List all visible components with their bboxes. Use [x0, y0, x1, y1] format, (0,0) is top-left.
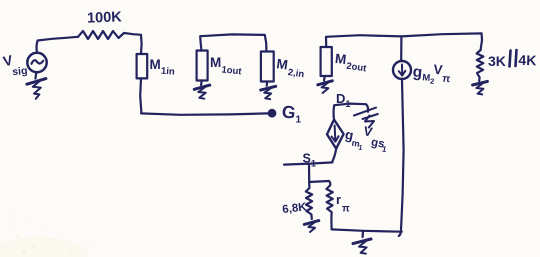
svg-text:sig: sig: [12, 65, 28, 79]
ground at bottom rail: [353, 231, 371, 254]
wire diamond bottom to S1 bar: [332, 149, 336, 162]
svg-text:2: 2: [430, 77, 435, 86]
svg-text:3K: 3K: [488, 53, 506, 69]
ground below 3K||4K: [473, 77, 488, 94]
label gm2 Vpi: [412, 60, 452, 87]
svg-text:π: π: [342, 204, 350, 215]
wire top rail joining M1out and M2in: [200, 34, 266, 51]
svg-text:M: M: [210, 55, 221, 70]
svg-text:M: M: [150, 57, 161, 72]
resistor 6.8K: [306, 188, 312, 219]
wire D1 stub: [334, 104, 369, 120]
wire M1in bottom to node G1: [140, 78, 267, 114]
resistor M2out: [321, 47, 332, 76]
ground below 6.8K: [304, 221, 319, 232]
svg-text:M: M: [334, 51, 347, 67]
ground below M1out: [194, 81, 210, 99]
svg-text:1: 1: [296, 115, 302, 126]
label 3K||4K: [488, 52, 537, 69]
wire 100K to M1in: [124, 33, 142, 54]
resistor M1in: [137, 54, 148, 78]
resistor R 100K: [78, 31, 124, 39]
label M2out: [334, 51, 368, 75]
current source gm2*Vpi: [393, 61, 411, 79]
resistor M2in: [261, 52, 274, 82]
label M1out: [210, 55, 243, 78]
svg-text:4K: 4K: [518, 52, 536, 69]
svg-text:1: 1: [311, 159, 316, 169]
node G1: [268, 109, 276, 117]
wire M2out top rail across to 3K||4K: [326, 33, 482, 50]
svg-text:G: G: [281, 101, 297, 123]
resistor 3K||4K: [477, 50, 484, 77]
svg-text:100K: 100K: [87, 9, 123, 26]
label 6,8K: [282, 201, 308, 216]
label M1in: [150, 57, 176, 78]
wire S1 down to junction: [308, 164, 311, 188]
voltage source Vsig: [27, 53, 46, 72]
wire Vsig top to 100K: [37, 37, 78, 53]
label S1: [303, 152, 317, 169]
wire bottom rail: [332, 229, 402, 231]
resistor r_pi: [326, 186, 332, 230]
resistor M1out: [197, 51, 208, 81]
svg-text:r: r: [336, 192, 341, 207]
label Vsig: [1, 52, 28, 79]
label gm1 Vgs1: [342, 120, 391, 157]
ground below M2in: [261, 82, 276, 100]
label 100K: [87, 9, 123, 26]
svg-text:2,in: 2,in: [287, 67, 305, 80]
wire vertical branch through current source: [399, 36, 404, 236]
squiggle strike at D1 stub: [354, 108, 378, 128]
label D1: [336, 91, 351, 109]
label r_pi: [336, 192, 350, 215]
label M2in: [276, 56, 305, 80]
svg-text:1in: 1in: [161, 66, 176, 78]
svg-text:1out: 1out: [221, 64, 243, 77]
wire junction to r_pi top: [309, 181, 330, 186]
label parallel bars: [510, 50, 517, 67]
label G1: [281, 101, 302, 125]
svg-text:M: M: [276, 56, 289, 72]
ground below Vsig: [27, 72, 46, 99]
ground below M2out: [318, 76, 333, 93]
svg-text:π: π: [442, 73, 451, 86]
node S1 bar: [284, 162, 332, 164]
dependent current source gm1*Vgs1 (diamond): [327, 120, 344, 149]
